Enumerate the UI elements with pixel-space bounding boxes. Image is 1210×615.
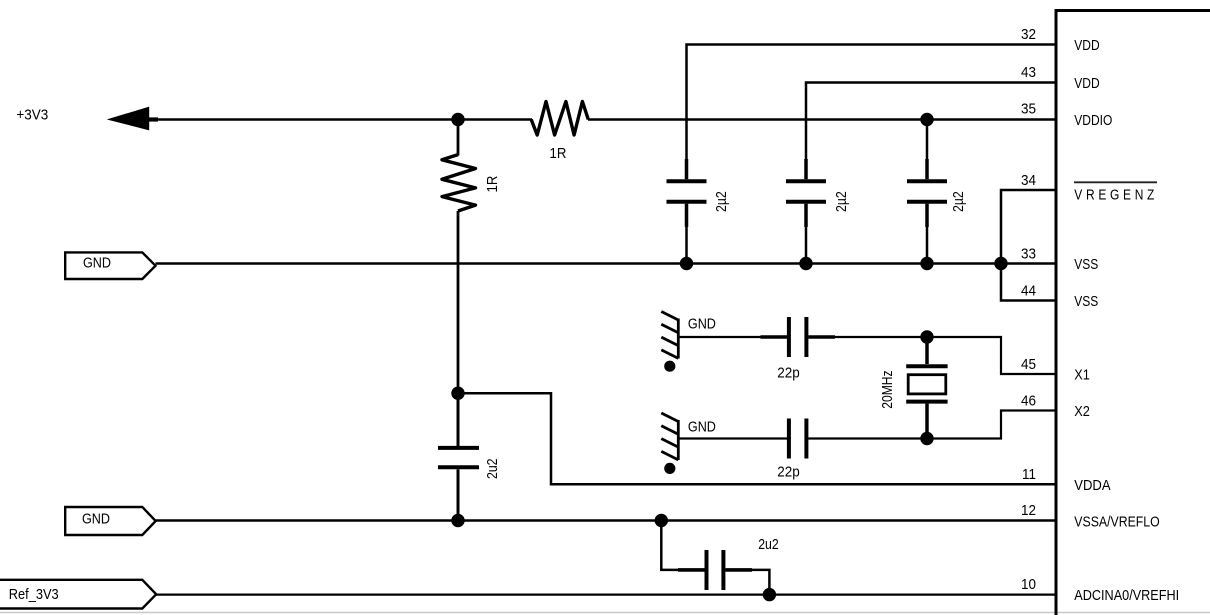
svg-text:45: 45 — [1021, 356, 1036, 373]
capacitor 22p #1 (X1) — [761, 317, 836, 357]
svg-text:VREGENZ: VREGENZ — [1074, 186, 1158, 203]
svg-text:VSSA/VREFLO: VSSA/VREFLO — [1074, 513, 1159, 529]
svg-text:Ref_3V3: Ref_3V3 — [9, 585, 59, 602]
wire Ref_3V3 rail (pin 10 ADCINA0/VREFHI) — [156, 593, 1056, 595]
svg-text:ADCINA0/VREFHI: ADCINA0/VREFHI — [1074, 586, 1179, 603]
wire bottom 2u2 branch left — [661, 521, 680, 570]
wire pin 34 VREGENZ jog — [1001, 190, 1056, 301]
svg-text:20MHz: 20MHz — [879, 370, 895, 409]
capacitor 2u2 vertical (VDDA) — [438, 393, 479, 520]
GND symbol 2 (crystal X2 side) — [661, 413, 678, 474]
svg-text:GND: GND — [688, 315, 716, 332]
svg-text:11: 11 — [1022, 466, 1036, 483]
wire vertical resistor top lead — [457, 120, 460, 156]
wire GND rail (pin 33 VSS) — [156, 262, 1057, 265]
svg-text:44: 44 — [1021, 283, 1036, 300]
svg-text:34: 34 — [1021, 172, 1036, 189]
capacitor 2u2 #1 (pin 32 VDD decoupling) — [667, 159, 707, 264]
svg-text:1R: 1R — [483, 176, 500, 193]
svg-text:GND: GND — [82, 509, 110, 526]
svg-text:2µ2: 2µ2 — [833, 191, 849, 212]
wire X1 net: GND symbol to 22p cap — [678, 336, 762, 338]
svg-text:46: 46 — [1021, 393, 1036, 410]
svg-text:VDDA: VDDA — [1074, 476, 1111, 493]
svg-text:X1: X1 — [1074, 365, 1090, 382]
svg-text:1R: 1R — [550, 144, 567, 161]
svg-text:22p: 22p — [777, 365, 800, 382]
wire X2 net: GND symbol to 22p cap — [678, 437, 787, 439]
svg-text:+3V3: +3V3 — [16, 107, 48, 124]
crystal 20MHz — [906, 337, 947, 439]
junction GND rail / cap1 — [680, 257, 693, 270]
wire GND rail lower (pin 12 VSSA/VREFLO) — [156, 519, 1056, 522]
svg-text:2u2: 2u2 — [484, 458, 500, 479]
svg-text:VDD: VDD — [1074, 37, 1099, 54]
svg-text:VSS: VSS — [1074, 293, 1098, 310]
resistor 1R horizontal — [531, 102, 588, 136]
GND flag lower — [65, 507, 156, 535]
wire VDD net pin 32 horizontal — [687, 45, 1057, 162]
svg-text:GND: GND — [83, 253, 111, 270]
wire vertical resistor bottom lead down to VDDA junction — [457, 211, 460, 393]
svg-text:10: 10 — [1021, 576, 1036, 593]
capacitor 22p #2 (X2) — [789, 419, 807, 459]
junction GND rail / cap3 — [920, 257, 933, 270]
junction crystal bottom / X2 — [920, 432, 933, 445]
GND flag upper — [65, 252, 155, 279]
junction VDDA / resistor bottom / cap 2u2 — [451, 387, 464, 400]
junction GND rail / pin34-44 jog — [994, 257, 1007, 270]
svg-text:X2: X2 — [1074, 402, 1090, 419]
svg-text:2µ2: 2µ2 — [713, 191, 729, 212]
capacitor 2u2 horizontal (VREFHI) — [678, 550, 752, 590]
wire +3V3 rail left of R1 — [156, 118, 532, 121]
svg-text:GND: GND — [688, 418, 716, 435]
svg-text:2u2: 2u2 — [758, 536, 779, 552]
wire VDD net pin 43 horizontal — [806, 83, 1056, 162]
svg-text:35: 35 — [1021, 101, 1036, 118]
GND symbol 1 (crystal X1 side) — [661, 312, 678, 372]
IC U1 body — [1056, 11, 1210, 615]
wire bottom 2u2 branch right to Ref_3V3 rail — [752, 570, 769, 595]
svg-text:VSS: VSS — [1074, 256, 1098, 273]
wire X1 net: cap to crystal junction and pin 45 — [835, 337, 1056, 374]
wire capacitor 3 top lead from +3V3 rail — [926, 120, 929, 162]
junction lower GND rail / bottom 2u2 branch — [655, 514, 668, 527]
capacitor 2u2 #3 (pin 35 VDDIO decoupling) — [907, 159, 947, 264]
junction crystal top / X1 — [920, 330, 933, 343]
Ref_3V3 flag — [0, 580, 156, 609]
svg-text:2µ2: 2µ2 — [950, 191, 966, 212]
wire X2 net: cap to crystal junction and pin 46 — [808, 411, 1056, 439]
svg-text:12: 12 — [1021, 502, 1036, 519]
junction +3V3 rail / capacitor 3 — [920, 113, 933, 126]
svg-text:43: 43 — [1021, 64, 1036, 81]
capacitor 2u2 #2 (pin 43 VDD decoupling) — [786, 159, 826, 264]
junction lower GND rail / 2u2 cap — [451, 514, 464, 527]
sheet border bottom gray line — [0, 612, 1210, 614]
svg-text:32: 32 — [1021, 26, 1036, 43]
pin name VREGENZ (34) with overline — [1074, 181, 1157, 183]
svg-text:VDDIO: VDDIO — [1074, 112, 1112, 129]
resistor 1R vertical — [442, 155, 476, 211]
junction +3V3 rail / vertical resistor — [451, 113, 464, 126]
power arrow +3V3 — [109, 107, 149, 129]
wire +3V3 rail right of R1 to pin 35 VDDIO — [588, 118, 1056, 121]
junction Ref_3V3 rail / 2u2 — [763, 588, 776, 601]
svg-text:VDD: VDD — [1074, 75, 1099, 92]
wire VDDA net pin 11 — [458, 393, 1056, 484]
junction GND rail / cap2 — [799, 257, 812, 270]
svg-text:33: 33 — [1021, 246, 1036, 263]
svg-text:22p: 22p — [777, 464, 800, 481]
